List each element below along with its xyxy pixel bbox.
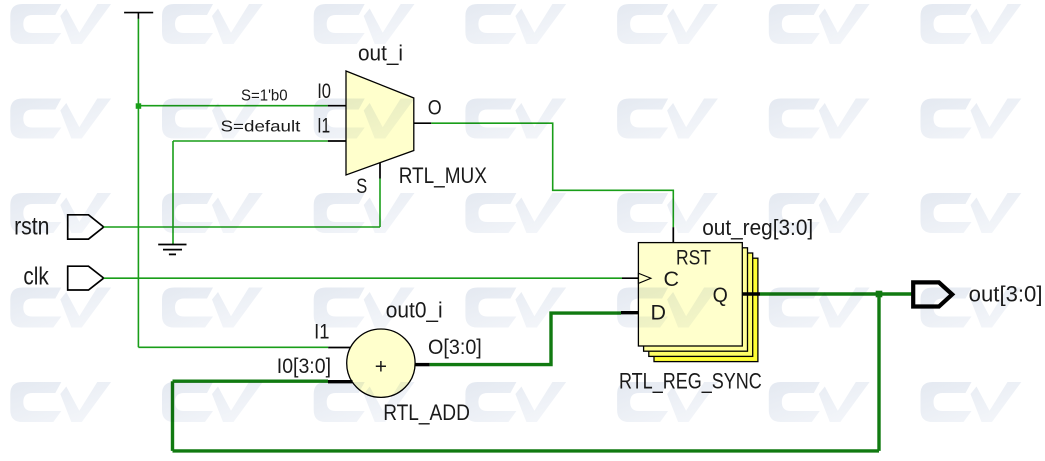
pin stub adder I1 [328, 347, 351, 349]
node junction on const net [136, 103, 142, 109]
svg-text:out_i: out_i [358, 41, 403, 66]
pin stub I0 [328, 105, 347, 107]
svg-text:Q: Q [713, 284, 728, 307]
adder U out0_i [347, 329, 415, 397]
bus feedback to adder I0 [173, 380, 329, 383]
pin stub C [622, 277, 638, 279]
bus feedback vertical left [171, 381, 174, 451]
mux U out_i [346, 71, 414, 175]
pin stub adder O bold [415, 363, 430, 366]
register out_reg shadow layer 3 [654, 258, 758, 361]
bus Q to out port [760, 292, 913, 295]
wire rstn net vertical to S [379, 179, 381, 228]
port rstn [68, 215, 104, 239]
wire rstn net horizontal [104, 226, 380, 228]
svg-text:+: + [375, 356, 387, 379]
register U out_reg [638, 243, 742, 346]
wire O net [431, 123, 673, 227]
svg-text:RTL_MUX: RTL_MUX [399, 163, 487, 188]
power symbol VCC [124, 13, 153, 19]
svg-text:O: O [428, 97, 442, 120]
wire const net to adder I1 [138, 346, 328, 348]
port out[3:0] [913, 282, 952, 306]
pin stub Q bold [742, 292, 760, 295]
wire net const0 vertical [137, 19, 139, 347]
pin stub RST [672, 227, 674, 242]
bus feedback vertical right [877, 294, 880, 451]
pin stub adder I0 bold [328, 380, 353, 383]
svg-text:clk: clk [23, 263, 49, 291]
ground [158, 245, 186, 255]
svg-text:RST: RST [676, 247, 711, 270]
register out_reg shadow layer 1 [644, 248, 748, 351]
wire clk net horizontal [104, 277, 622, 279]
svg-text:I0[3:0]: I0[3:0] [277, 355, 331, 378]
port clk [68, 266, 104, 290]
node junction on Q bus [876, 291, 883, 298]
clock triangle marker [638, 273, 651, 283]
register out_reg shadow layer 2 [649, 253, 753, 356]
wire I1 net horizontal [173, 140, 328, 142]
wire I1 net vertical to ground [172, 141, 174, 244]
bus adder O to D [430, 313, 621, 365]
pin stub S [379, 162, 381, 179]
bus feedback bottom horizontal [173, 449, 880, 452]
pin stub O [414, 122, 432, 124]
wire I0 net horizontal [138, 105, 327, 107]
svg-text:O[3:0]: O[3:0] [428, 336, 482, 359]
pin stub D bold [621, 311, 638, 314]
pin stub I1 [328, 140, 347, 142]
